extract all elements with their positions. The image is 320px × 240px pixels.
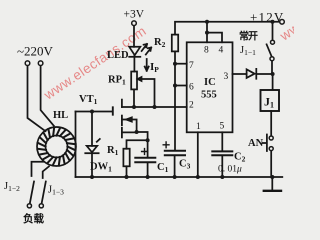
svg-text:LED: LED xyxy=(107,50,129,61)
wire C1 to rail xyxy=(147,163,149,177)
gate bar VT1 xyxy=(112,107,114,114)
junction pin8/pin4 split xyxy=(205,31,209,35)
svg-text:+3V: +3V xyxy=(124,9,145,21)
junction wiper / trigger wire xyxy=(153,105,157,109)
capacitor C2 plates xyxy=(212,151,232,155)
wire load left branch xyxy=(32,162,44,176)
VT1 body lead with arrow xyxy=(122,120,137,133)
wire R1 to rail xyxy=(126,166,128,177)
VT1 channel dash 2 xyxy=(121,116,123,126)
junction RP1 / trigger wire xyxy=(132,105,136,109)
watermark main xyxy=(40,23,149,103)
wire pin6 lead xyxy=(175,85,187,87)
LED light arrow 2 xyxy=(146,48,151,55)
junction pin 6 / R2 xyxy=(173,84,177,88)
diode D1 to relay xyxy=(247,69,257,79)
LED cathode bar xyxy=(129,56,140,58)
LED triangle xyxy=(129,47,140,55)
svg-text:HL: HL xyxy=(53,110,68,121)
pushbutton AN bar xyxy=(263,135,267,152)
node dot 8/4 feed xyxy=(207,22,222,43)
ground stub xyxy=(271,177,273,190)
junction C1 / R1 jog xyxy=(146,138,150,142)
wire C1 branch xyxy=(147,140,149,157)
svg-text:4: 4 xyxy=(219,46,224,56)
svg-text:3: 3 xyxy=(224,72,229,82)
wire pin3 to diode xyxy=(233,73,247,75)
svg-text:+12V: +12V xyxy=(250,10,285,25)
bottom ground rail xyxy=(76,176,283,178)
svg-text:常开: 常开 xyxy=(239,30,258,43)
transformer HL winding hatches xyxy=(37,127,75,165)
RP1 wiper arrowhead xyxy=(138,77,142,81)
zener DW1 cathode bar xyxy=(85,152,98,154)
junction R1 / ground rail xyxy=(125,175,129,179)
contact J1-2 terminal xyxy=(27,204,31,208)
contact J1-2 blade xyxy=(30,182,34,204)
svg-text:0. 01μ: 0. 01μ xyxy=(218,165,242,175)
zener DW1 triangle xyxy=(87,146,98,152)
resistor R2 body xyxy=(172,35,178,52)
wire 220V right lead xyxy=(41,65,54,125)
zener tick xyxy=(97,139,100,142)
watermark corner fragment xyxy=(276,0,320,44)
wire pin1 to rail xyxy=(197,132,199,177)
contact AN top xyxy=(269,136,273,140)
wire gate lead VT1 xyxy=(76,111,113,113)
contact AN bottom xyxy=(269,147,273,151)
wire ring lead to J1-3 xyxy=(43,167,49,179)
svg-text:7: 7 xyxy=(189,61,194,71)
capacitor C1 plates xyxy=(135,158,155,162)
junction C1 / ground rail xyxy=(146,175,150,179)
wire RP1 to node xyxy=(133,89,135,107)
terminal 220V a xyxy=(25,61,30,66)
LED light arrow 1 xyxy=(142,44,147,51)
svg-text:555: 555 xyxy=(201,90,217,101)
junction diode / relay node xyxy=(271,72,275,76)
RP1 wiper xyxy=(141,79,155,107)
contact J1-3 blade xyxy=(42,182,46,204)
wire source node east xyxy=(137,132,148,140)
current Ip arrow xyxy=(145,59,149,71)
C3 plus sign xyxy=(163,142,169,148)
wire J1 to AN xyxy=(270,111,272,136)
svg-text:6: 6 xyxy=(189,83,194,93)
relay coil J1 box xyxy=(261,90,280,111)
svg-text:5: 5 xyxy=(220,122,225,132)
wire C2 to rail xyxy=(221,156,223,177)
svg-text:8: 8 xyxy=(204,46,209,56)
top +12V rail xyxy=(175,22,280,35)
zener branch wire xyxy=(91,112,93,146)
wire 220V left lead xyxy=(28,65,46,131)
junction +12V rail / J1-1 xyxy=(271,20,275,24)
terminal 220V b xyxy=(38,61,43,66)
junction DW1 / ground rail xyxy=(90,175,94,179)
capacitor C3 plates xyxy=(165,151,185,155)
junction pin 7 / R2 xyxy=(173,62,177,66)
C1 plus sign xyxy=(142,149,148,155)
svg-text:AN: AN xyxy=(248,138,264,149)
junction VT1 source node xyxy=(135,130,139,134)
VT1 source lead xyxy=(122,131,137,133)
potentiometer RP1 body xyxy=(131,72,137,90)
VT1 body arrowhead xyxy=(126,117,132,121)
svg-text:~220V: ~220V xyxy=(17,44,54,59)
resistor R1 body xyxy=(123,149,129,167)
relay contact J1-1 blade xyxy=(267,44,272,56)
junction pins 8-4 feed xyxy=(205,20,209,24)
svg-text:IC: IC xyxy=(204,77,216,88)
wire pin7 lead xyxy=(175,63,187,65)
contact J1-1 top xyxy=(271,40,275,44)
junction pin 1 / ground rail xyxy=(196,175,200,179)
transformer HL ring inner xyxy=(46,136,68,158)
svg-text:负载: 负载 xyxy=(23,212,44,225)
VT1 drain dash and lead xyxy=(121,100,123,107)
wire C3 branch xyxy=(174,107,176,150)
wire left rail DC xyxy=(75,112,77,178)
wire AN to rail xyxy=(270,151,272,177)
junction gate wire / DW1 xyxy=(90,110,94,114)
transformer HL ring outer xyxy=(37,127,76,166)
ground bar xyxy=(264,190,281,192)
VT1 channel dash 3 xyxy=(121,128,123,138)
wire trigger node y107 xyxy=(122,106,187,108)
contact J1-1 bottom xyxy=(270,57,274,61)
contact J1-3 terminal xyxy=(39,204,43,208)
wire J1-1 branch from +12V xyxy=(272,22,274,40)
wire diode to node xyxy=(256,73,272,75)
wire C3 to rail xyxy=(174,156,176,177)
wire +3V down to LED xyxy=(133,25,135,46)
terminal +12V xyxy=(280,20,285,25)
junction C2 / ground rail xyxy=(220,175,224,179)
wire below J1-1 to node xyxy=(271,61,274,90)
svg-text:2: 2 xyxy=(189,101,194,111)
wire pin5 to C2 xyxy=(221,132,223,151)
IC 555 box U1 xyxy=(187,42,233,132)
wire LED to RP1 xyxy=(133,55,135,71)
junction AN / ground rail xyxy=(270,175,274,179)
svg-text:1: 1 xyxy=(196,122,201,132)
terminal +3V xyxy=(132,21,137,26)
junction C3 / ground rail xyxy=(173,175,177,179)
wire zener to rail xyxy=(91,153,93,177)
wire jog to R1 xyxy=(127,140,148,149)
wire R2 down to node xyxy=(174,51,176,107)
